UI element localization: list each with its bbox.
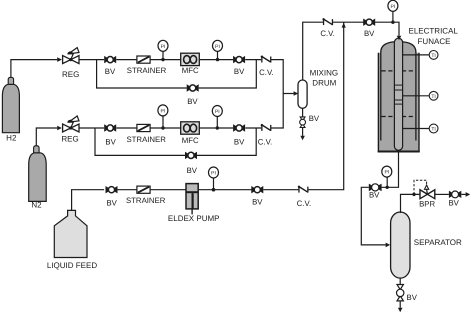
furnace inner vessel dome bbox=[381, 42, 416, 141]
svg-text:BV: BV bbox=[448, 199, 459, 208]
temperature indicator TI3 bbox=[429, 124, 438, 133]
MFC row2 bbox=[181, 122, 200, 134]
ball valve BV row3-a bbox=[106, 186, 118, 193]
bypass row1 right leg bbox=[199, 60, 257, 88]
pressure indicator PI top bbox=[388, 0, 398, 11]
MIXING DRUM label bbox=[310, 68, 338, 87]
wire drum drain bbox=[302, 108, 304, 117]
N2 cylinder bbox=[29, 146, 47, 202]
node PI tap furnace outlet bbox=[386, 186, 389, 189]
svg-text:DRUM: DRUM bbox=[312, 79, 336, 88]
wire drum to top line bbox=[303, 22, 324, 80]
riser from pump line with arrow bbox=[342, 23, 346, 28]
wire separator drain arrow bbox=[399, 301, 401, 308]
wire strainer to BV row3 bbox=[150, 189, 251, 191]
strainer row2 bbox=[137, 124, 150, 131]
wire BV to strainer row2 bbox=[116, 127, 137, 129]
node PI tap row2-b bbox=[216, 126, 219, 129]
strainer row3 bbox=[137, 186, 150, 193]
svg-text:BPR: BPR bbox=[419, 199, 435, 208]
drain valve BV drum bbox=[300, 117, 306, 128]
svg-text:BV: BV bbox=[187, 166, 198, 175]
ball valve BV furnace outlet bbox=[369, 184, 382, 192]
node PI tap row1-a bbox=[161, 58, 164, 61]
node PI tap row2-a bbox=[161, 126, 164, 129]
PI stem row1-b bbox=[217, 51, 219, 60]
wire furnace outlet bbox=[382, 151, 399, 188]
wire separator top to BPR bbox=[401, 194, 421, 213]
BPR pilot triangle bbox=[425, 185, 429, 189]
wire vent arrow bbox=[461, 193, 465, 195]
wire CV to corner row1 bbox=[271, 60, 283, 94]
bypass row1 left leg bbox=[97, 60, 187, 88]
PI stem furnace outlet bbox=[386, 177, 388, 187]
pressure indicator PI furnace outlet bbox=[382, 166, 392, 177]
wire CV to riser row3 bbox=[308, 22, 343, 190]
wire strainer to BV row1 bbox=[150, 59, 233, 61]
PI stem row2-b bbox=[216, 117, 218, 129]
TI line 1 bbox=[403, 54, 430, 56]
svg-text:ELDEX PUMP: ELDEX PUMP bbox=[168, 214, 220, 223]
svg-text:BV: BV bbox=[407, 293, 418, 302]
flow arrow into mixing drum bbox=[294, 91, 299, 96]
node PI tap row3 bbox=[212, 188, 216, 192]
temperature indicator TI2 bbox=[429, 91, 438, 100]
ball valve BV vent bbox=[449, 191, 461, 198]
check valve CV row1 bbox=[261, 56, 271, 63]
arrow separator drain bbox=[398, 308, 403, 313]
liquid feed bottle bbox=[54, 210, 87, 257]
regulator REG row2 bbox=[63, 116, 79, 132]
svg-text:STRAINER: STRAINER bbox=[126, 135, 166, 144]
furnace dashed level 1 bbox=[382, 70, 416, 72]
furnace dashed level 2 bbox=[382, 116, 416, 118]
arrow into furnace bbox=[397, 36, 402, 41]
ELECTRICAL FUNACE label bbox=[409, 27, 459, 46]
PI stem row2-a bbox=[162, 116, 164, 128]
TI line 3 bbox=[403, 128, 430, 130]
svg-text:MFC: MFC bbox=[182, 66, 199, 75]
svg-text:STRAINER: STRAINER bbox=[127, 66, 167, 75]
wire BV to CV row3 bbox=[263, 189, 298, 191]
svg-text:MIXING: MIXING bbox=[310, 68, 338, 77]
wire BPR to BV vent bbox=[435, 193, 449, 195]
regulator REG row1 bbox=[63, 48, 79, 64]
PI stem row3 bbox=[213, 178, 215, 190]
PI stem top bbox=[392, 11, 394, 23]
ball valve BV row1-b bbox=[233, 56, 245, 63]
H2 cylinder bbox=[2, 77, 19, 132]
wire drain arrow drum bbox=[302, 128, 304, 136]
catalyst bed ticks bbox=[394, 85, 402, 104]
svg-text:LIQUID FEED: LIQUID FEED bbox=[47, 261, 97, 270]
svg-text:C.V.: C.V. bbox=[320, 29, 334, 38]
ball valve BV bypass row2 bbox=[185, 152, 197, 159]
svg-text:C.V.: C.V. bbox=[297, 199, 311, 208]
separator vessel bbox=[391, 212, 410, 278]
ball valve BV bypass row1 bbox=[187, 84, 199, 91]
svg-text:ELECTRICAL: ELECTRICAL bbox=[409, 27, 459, 36]
furnace outer shell U bbox=[378, 53, 419, 152]
node PI tap row1-b bbox=[216, 58, 219, 61]
MFC row1 bbox=[181, 53, 200, 65]
svg-text:REG: REG bbox=[61, 134, 78, 143]
wire BV to strainer row1 bbox=[116, 59, 137, 61]
arrow drum drain bbox=[300, 136, 305, 141]
ball valve BV row1-a bbox=[104, 56, 116, 63]
svg-text:BV: BV bbox=[106, 198, 117, 207]
BPR pilot dashed line bbox=[414, 180, 427, 194]
pressure indicator PI row1-a bbox=[158, 40, 168, 51]
pressure indicator PI row2-b bbox=[212, 106, 222, 117]
back pressure regulator BPR bbox=[420, 189, 435, 198]
node pilot tap bbox=[412, 193, 415, 196]
wire outlet down to separator bbox=[361, 187, 385, 245]
wire BV to CV row2 bbox=[245, 127, 261, 129]
strainer row1 bbox=[137, 56, 150, 63]
check valve CV row3 bbox=[298, 186, 308, 193]
arrow into separator bbox=[386, 243, 391, 248]
ball valve BV row2-a bbox=[104, 124, 116, 131]
TI line 2 bbox=[403, 95, 430, 97]
PI stem row1-a bbox=[162, 51, 164, 60]
electrical furnace gray body fill bbox=[378, 53, 419, 152]
bypass row2 left leg bbox=[95, 128, 185, 155]
svg-text:BV: BV bbox=[369, 191, 380, 200]
furnace bottom thick line bbox=[378, 151, 420, 153]
svg-text:BV: BV bbox=[105, 67, 116, 76]
svg-text:SEPARATOR: SEPARATOR bbox=[414, 238, 462, 247]
pressure indicator PI row2-a bbox=[158, 105, 168, 116]
svg-text:STRAINER: STRAINER bbox=[126, 196, 166, 205]
svg-text:H2: H2 bbox=[6, 134, 17, 143]
svg-text:C.V.: C.V. bbox=[258, 137, 272, 146]
svg-text:FUNACE: FUNACE bbox=[418, 37, 451, 46]
eldex pump bbox=[186, 184, 198, 215]
wire separator drain bbox=[399, 278, 401, 285]
svg-text:REG: REG bbox=[62, 70, 79, 79]
wire CV to BV top bbox=[332, 21, 364, 23]
ball valve BV row3-b bbox=[251, 186, 263, 193]
wire H2 to REG R1 bbox=[11, 60, 57, 78]
svg-text:BV: BV bbox=[364, 29, 375, 38]
ball valve BV row2-b bbox=[233, 124, 245, 131]
wire CV to corner row2 bbox=[271, 94, 283, 129]
wire merge to mixing drum bbox=[283, 93, 293, 95]
reactor tube bbox=[394, 38, 402, 150]
wire REG to BV row1 bbox=[79, 59, 104, 61]
svg-text:BV: BV bbox=[234, 137, 245, 146]
svg-text:BV: BV bbox=[234, 67, 245, 76]
wire strainer to BV row2 bbox=[150, 127, 233, 129]
svg-text:C.V.: C.V. bbox=[259, 68, 273, 77]
svg-text:MFC: MFC bbox=[182, 136, 199, 145]
flow arrow into REG row1 bbox=[57, 57, 62, 62]
svg-text:BV: BV bbox=[187, 97, 198, 106]
ball valve BV top bbox=[363, 19, 375, 26]
svg-text:BV: BV bbox=[105, 137, 116, 146]
svg-text:N2: N2 bbox=[31, 201, 42, 210]
bypass row2 right leg bbox=[197, 128, 256, 155]
wire REG to BV row2 bbox=[79, 127, 104, 129]
node PI tap top bbox=[391, 21, 394, 24]
mixing drum bbox=[298, 80, 307, 108]
flow arrow into REG row2 bbox=[57, 126, 62, 131]
temperature indicator TI1 bbox=[429, 51, 438, 60]
wire N2 to REG row2 bbox=[36, 128, 57, 146]
pressure indicator PI row3 bbox=[209, 167, 219, 178]
wire BV to strainer row3 bbox=[118, 189, 138, 191]
wire bottle to pump line bbox=[72, 190, 105, 211]
pressure indicator PI row1-b bbox=[213, 40, 223, 51]
svg-text:BV: BV bbox=[309, 114, 320, 123]
wire BV top to furnace corner bbox=[374, 22, 399, 36]
arrow vent out bbox=[466, 192, 471, 197]
svg-text:BV: BV bbox=[252, 197, 263, 206]
check valve CV top bbox=[322, 18, 332, 25]
wire BV to CV row1 bbox=[245, 59, 261, 61]
drain valve BV separator bbox=[397, 285, 404, 301]
check valve CV row2 bbox=[261, 124, 271, 131]
